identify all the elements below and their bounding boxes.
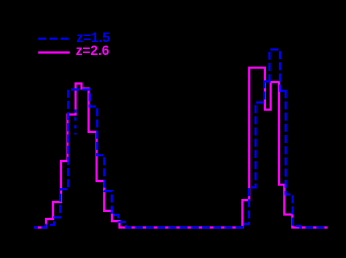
blue dashed segment fragment on left peak riser: [74, 110, 76, 135]
legend line z=1.5 blue dashed: [38, 38, 70, 40]
blue dash reinforcement segments: [265, 80, 270, 82]
histogram z=1.5 blue dashed step curve: [34, 50, 328, 228]
legend line z=2.6 magenta solid: [38, 51, 70, 53]
histogram z=2.6 magenta solid step curve: [34, 68, 328, 228]
svg-text:z=2.6: z=2.6: [76, 43, 110, 58]
